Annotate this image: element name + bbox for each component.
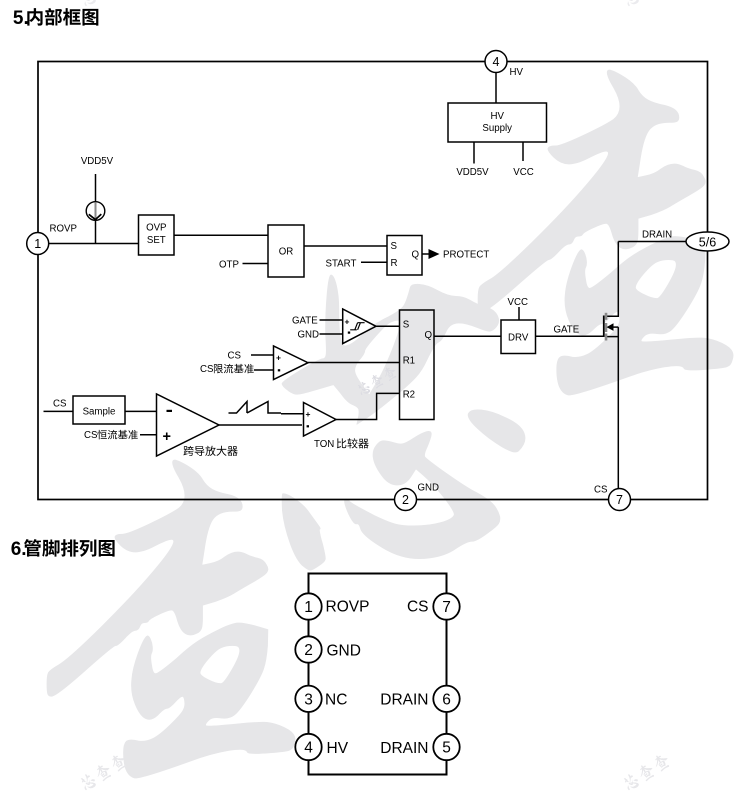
latch2 box <box>400 310 435 420</box>
svg-text:VCC: VCC <box>508 297 528 308</box>
svg-text:R1: R1 <box>403 356 415 367</box>
svg-text:S: S <box>391 241 398 252</box>
svg-text:6: 6 <box>442 691 451 708</box>
svg-text:6.: 6. <box>11 539 27 560</box>
HV supply box <box>448 103 547 142</box>
watermark glyph xin (center) <box>282 275 525 570</box>
Sample input stub <box>44 410 74 412</box>
svg-text:5/6: 5/6 <box>699 235 716 249</box>
S wire <box>376 325 400 327</box>
svg-text:2: 2 <box>304 642 313 659</box>
svg-text:OVP: OVP <box>146 223 166 234</box>
svg-text:SET: SET <box>147 235 166 246</box>
watermark corner texts <box>78 0 129 8</box>
svg-text:CS: CS <box>594 485 608 496</box>
OVP SET box <box>139 215 175 255</box>
svg-text:7: 7 <box>616 493 623 507</box>
PROTECT arrow <box>429 249 440 259</box>
package pin 4 circle <box>295 734 321 760</box>
svg-text:+: + <box>276 353 281 363</box>
OTP wire <box>243 263 269 265</box>
CS ref wire <box>140 434 157 436</box>
svg-text:TON: TON <box>314 439 334 450</box>
svg-text:DRAIN: DRAIN <box>380 740 428 757</box>
svg-text:VCC: VCC <box>513 167 533 178</box>
svg-text:OR: OR <box>279 247 294 258</box>
watermark glyph cha (bottom-left) <box>47 460 295 778</box>
pin package <box>309 574 447 775</box>
Q1 out <box>422 253 429 255</box>
pin circles (white fill over border) <box>27 51 729 511</box>
svg-text:R: R <box>391 258 398 269</box>
transconductance amp triangle <box>157 394 220 456</box>
sawtooth <box>229 402 282 414</box>
svg-text:4: 4 <box>304 740 313 757</box>
svg-text:CS: CS <box>84 430 98 441</box>
svg-text:7: 7 <box>442 599 451 616</box>
svg-text:+: + <box>345 317 350 327</box>
svg-text:3: 3 <box>304 691 313 708</box>
package pin 7 circle <box>433 593 459 619</box>
pin 7 circle (CS) <box>609 489 631 511</box>
svg-text:NC: NC <box>325 691 347 708</box>
package pin 6 circle <box>433 686 459 712</box>
svg-text:ROVP: ROVP <box>326 599 370 616</box>
svg-text:START: START <box>326 259 357 270</box>
gate comparator inputs <box>320 319 343 321</box>
DRV box <box>501 320 536 354</box>
pin4 stem <box>495 73 497 104</box>
svg-text:GND: GND <box>327 643 361 660</box>
svg-text:Q: Q <box>425 330 433 341</box>
svg-text:Supply: Supply <box>482 123 512 134</box>
amp out <box>219 424 302 426</box>
svg-text:1: 1 <box>34 237 41 251</box>
wire OR to latch1 S <box>304 245 387 247</box>
section 5 title <box>13 8 98 29</box>
svg-text:DRV: DRV <box>508 332 529 343</box>
pin 4 circle (HV) <box>485 51 507 73</box>
latch1 box <box>387 236 422 276</box>
svg-text:Q: Q <box>412 249 420 260</box>
svg-text:Sample: Sample <box>83 407 116 418</box>
svg-text:CS: CS <box>228 350 242 361</box>
Sample to amp <box>125 410 157 412</box>
svg-text:2: 2 <box>402 493 409 507</box>
R1 wire <box>308 362 400 364</box>
svg-text:CS: CS <box>53 398 67 409</box>
svg-text:1: 1 <box>304 599 313 616</box>
MOSFET source down to pin7 <box>617 327 619 488</box>
svg-text:CS: CS <box>407 599 429 616</box>
svg-text:R2: R2 <box>403 390 415 401</box>
MOSFET drain connection <box>607 242 619 317</box>
hysteresis comparator triangle <box>343 309 376 344</box>
svg-text:VDD5V: VDD5V <box>81 156 114 167</box>
svg-text:DRAIN: DRAIN <box>642 230 672 241</box>
svg-text:VDD5V: VDD5V <box>456 167 489 178</box>
wire pin1 to OVP SET <box>48 243 139 245</box>
MOSFET channel dashes <box>605 313 608 341</box>
current source circle <box>86 202 105 221</box>
block diagram border <box>38 62 708 500</box>
TON comparator triangle <box>304 403 337 437</box>
DRV to gate <box>536 335 604 337</box>
svg-text:HV: HV <box>510 67 524 78</box>
CJK: kua dao fang da qi (transconductance amp) <box>183 446 237 456</box>
svg-text:+: + <box>306 409 311 419</box>
svg-text:GATE: GATE <box>554 325 580 336</box>
svg-text:PROTECT: PROTECT <box>443 250 489 261</box>
svg-text:HV: HV <box>490 111 504 122</box>
svg-text:5.: 5. <box>13 8 29 29</box>
svg-text:S: S <box>403 320 410 331</box>
MOSFET body line <box>612 326 618 328</box>
svg-text:CS: CS <box>200 364 214 375</box>
svg-text:DRAIN: DRAIN <box>380 691 428 708</box>
DRAIN wire from pin5/6 <box>618 241 686 243</box>
svg-text:5: 5 <box>442 740 451 757</box>
svg-text:ROVP: ROVP <box>50 224 77 235</box>
MOSFET source connection <box>607 336 619 338</box>
package pin 5 circle <box>433 734 459 760</box>
CS comparator triangle <box>274 346 309 380</box>
VCC stem <box>518 307 520 320</box>
current source stem <box>95 174 97 202</box>
pin 2 circle (GND) <box>395 489 417 511</box>
svg-text:OTP: OTP <box>219 259 239 270</box>
TON out to R2 <box>336 393 400 419</box>
svg-text:HV: HV <box>327 740 349 757</box>
wire OVP SET to OR <box>174 234 268 236</box>
CS comparator inputs <box>251 354 274 356</box>
svg-text:GND: GND <box>418 483 440 494</box>
package pin 2 circle <box>295 636 321 662</box>
pin 5/6 ellipse (DRAIN) <box>686 232 729 251</box>
package pin 1 circle <box>295 593 321 619</box>
svg-text:GATE: GATE <box>292 316 318 327</box>
watermark glyph cha (top-right) <box>478 70 733 395</box>
section 6 title <box>11 539 115 560</box>
package pin 3 circle <box>295 686 321 712</box>
Sample box <box>73 396 125 424</box>
OR box <box>268 225 304 277</box>
START wire <box>361 261 387 263</box>
svg-text:GND: GND <box>298 330 320 341</box>
Q out to DRV <box>434 335 501 337</box>
svg-text:+: + <box>163 429 171 445</box>
pin 1 circle (ROVP) <box>27 233 49 255</box>
MOSFET gate plate <box>603 316 605 338</box>
svg-text:4: 4 <box>493 55 500 69</box>
MOSFET body arrow <box>607 323 614 331</box>
